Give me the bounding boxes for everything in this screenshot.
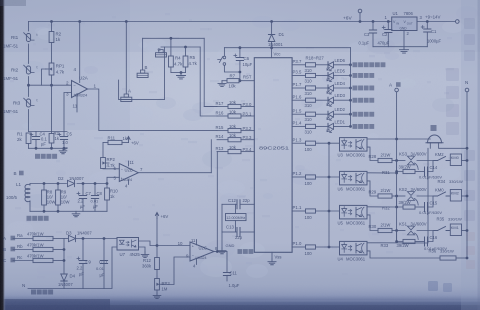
capacitor C10 0.01uF [103, 239, 105, 261]
probe C electrode [159, 50, 163, 53]
wire PSU ground bus [373, 46, 427, 48]
optocoupler U4 MOC3061 [340, 241, 368, 255]
label indicator text LED3 [353, 98, 358, 103]
wire Vcc node [224, 47, 350, 49]
resistor 100 row P1.3 [292, 142, 305, 144]
label indicator text LED5 [353, 73, 358, 78]
node R12 tap [156, 244, 159, 247]
label digital ground [238, 249, 243, 254]
optocoupler U6 MOC3061 [340, 171, 368, 185]
LED LED3 [328, 97, 334, 103]
wire R17 R16 stubs [204, 106, 217, 108]
LED LED1 [328, 123, 334, 129]
wire RP2 to pin6 [103, 168, 119, 170]
ground 4N25 [141, 252, 149, 257]
potentiometer RP2 4.7k [102, 143, 104, 158]
label over-temp sampling [35, 154, 40, 159]
wire U3 pin6 to A bus and bell [367, 138, 430, 140]
wire LED4 to bus [334, 87, 351, 89]
right-page bleed-through headline characters [446, 18, 475, 221]
capacitor C6 10uF [239, 48, 241, 58]
wire 4N25 emitter to ground [139, 247, 146, 252]
power +6V arrow [127, 137, 130, 143]
terminal input [456, 20, 460, 24]
wire probe C line to R16 row [200, 47, 217, 116]
resistor Ra 470k/1W [13, 238, 33, 240]
transformer L1 100/5 [29, 184, 31, 186]
resistor 310 row P3.7 [292, 64, 305, 66]
bottom page-edge dark band [0, 283, 480, 310]
wire regulator GND pin [403, 31, 405, 47]
capacitor C4 0.1uF [35, 132, 37, 137]
wire LED5 to bus [334, 75, 351, 77]
node phase junctions [63, 248, 66, 251]
wire bell left leg [429, 143, 431, 149]
resistor 310 row P3.5 [292, 75, 305, 77]
resistor R29 2/1W [378, 194, 392, 198]
probe B electrode [140, 70, 144, 73]
contact KM0 row2 [434, 192, 450, 196]
regulator U1 7806 [392, 17, 417, 31]
thermistor Rt2 [26, 66, 30, 74]
op-amp U2A LM324 [72, 81, 88, 98]
wire probe B line to R17 row [204, 38, 217, 106]
capacitor C11 1.0uF [226, 252, 228, 273]
resistor R15 10k to P3.2 [217, 130, 228, 132]
wire coil KM2 to N [462, 195, 468, 197]
resistor R10 1k [106, 184, 108, 189]
crystal 12.000MHz [235, 204, 237, 213]
wire probe C feed [161, 46, 200, 48]
wire U2A pin11 down [76, 94, 78, 113]
label phase-loss sampling [31, 290, 36, 295]
capacitor C2 470uF [387, 22, 389, 30]
wire opto cathode chain bus [328, 143, 330, 247]
wire U2B output to R14 [138, 172, 211, 174]
wire Vss pin [271, 252, 273, 259]
wire probe A drop from rail [125, 22, 127, 95]
thermistor Rt3 [26, 99, 30, 107]
diode D2 1N4007 [68, 180, 75, 186]
optocoupler U5 MOC3061 [340, 205, 368, 219]
coil KM1 [450, 224, 461, 236]
wire U2C output to R13 [216, 152, 218, 252]
diode D1 1N4001 [271, 22, 273, 34]
capacitor C13 22p [222, 231, 237, 233]
pushbutton reset [223, 48, 225, 56]
right page-cut edge [478, 0, 480, 310]
optocoupler U7 4N25 [117, 238, 139, 251]
node C9 C10 top junctions [82, 237, 85, 240]
node +6V rail junctions [50, 20, 53, 23]
ground R7 [218, 81, 226, 87]
wire R30 to triac KS1 [392, 230, 405, 232]
resistor R4 4.7k [170, 38, 172, 56]
wire RP1 wiper loop [42, 69, 47, 85]
node R5 top junction [184, 46, 187, 49]
wire overcurrent top bus [30, 183, 67, 185]
left book-edge black strip [0, 0, 6, 310]
capacitor C9 2.2uF [82, 239, 84, 261]
wire U2C output [214, 251, 227, 253]
contact KM1 row3 [434, 227, 450, 231]
ground PSU [400, 47, 409, 53]
ground filter [59, 148, 67, 153]
wire coil KM0 to N [462, 160, 468, 162]
resistor 100 row P1.2 [292, 176, 305, 178]
triac KS3 3A/600V [407, 156, 414, 160]
wire filter top bus [29, 131, 68, 133]
node RST junction [239, 71, 242, 74]
wire +6V top rail [29, 21, 392, 23]
wire crystal ground bus [221, 204, 223, 248]
wire U2C pin9 feedback to RP3 wiper [162, 257, 190, 285]
wire U5 pin4 down [367, 215, 378, 231]
thermistor Rt1 [26, 34, 30, 42]
coil KM0 [449, 160, 452, 162]
wire U3 pin4 down [367, 147, 378, 160]
resistor 100 row P1.1 [292, 210, 305, 212]
wire RP1 node down to R3 [51, 85, 53, 131]
capacitor C5 1.0uF [63, 132, 65, 137]
wire R28 to triac [392, 160, 405, 162]
resistor R28 2/1W [378, 158, 392, 162]
wire U4 pin6 to bell drop [367, 148, 428, 243]
resistor Rb 470k/1W [13, 249, 33, 251]
capacitor C15 0.01uF/630V [415, 206, 425, 208]
wire triac KS3 to contact [417, 160, 434, 162]
resistor Rc 470k/1W [13, 260, 33, 262]
resistor R13 10k to P3.4 [217, 151, 228, 153]
resistor R1 2k [26, 133, 31, 144]
wire LED6 to bus [334, 64, 351, 66]
wire phase join bus [63, 239, 65, 275]
capacitor C8 0.01uF [94, 184, 96, 196]
wire coil KM1 to N [462, 230, 468, 232]
node R4 top junction [170, 37, 173, 40]
wire N return [28, 247, 117, 289]
wire probe B feed [143, 37, 205, 39]
wire triac KS2 to contact [417, 195, 434, 197]
label indicator text LED4 [353, 86, 358, 91]
ground overcurrent [72, 211, 80, 216]
label indicator text LED1 [353, 124, 358, 129]
wire bell right leg to N [439, 143, 467, 149]
resistor R8 10/10W [43, 184, 45, 191]
resistor 310 row P1.4 [292, 125, 305, 127]
resistor R9 10/10W [57, 184, 59, 191]
node Vcc junctions [239, 46, 242, 49]
ground RP3 [156, 290, 158, 293]
resistor R5 4.7k [185, 47, 187, 56]
label indicator text LED2 [353, 112, 358, 117]
resistor R17 10k to P3.0 [217, 106, 228, 108]
potentiometer RP3 1M [155, 279, 160, 291]
label indicator text LED6 [353, 62, 358, 67]
snubber R31 39/2W [397, 161, 403, 172]
capacitor C3 0.1uF [372, 22, 374, 31]
node bridge junctions [27, 84, 30, 87]
wire bridge node to op-amp pin2 [29, 84, 72, 86]
right gutter shading [461, 0, 480, 310]
resistor R11 1k to +6V [103, 142, 108, 144]
capacitor C16 0.01uF/630V [415, 241, 425, 243]
triac KS2 3A/600V [407, 192, 414, 196]
resistor 310 row P1.7 [292, 87, 305, 89]
wire LED anode bus [350, 48, 352, 127]
resistor R16 10k to P3.1 [217, 115, 228, 117]
wire N bus [466, 92, 468, 258]
wire LED2 to bus [334, 113, 351, 115]
wire LED3 to bus [334, 99, 351, 101]
wire 4N25 collector out [139, 241, 158, 246]
resistor R30 2/1W [378, 228, 392, 232]
LED LED6 [328, 62, 334, 68]
wire R29 to triac KS2 [392, 195, 405, 197]
capacitor C1 1000uF [426, 22, 428, 30]
wire Vcc pin [271, 48, 273, 58]
optocoupler U3 MOC3061 [340, 138, 368, 152]
resistor R3 1k [51, 132, 53, 134]
contact KM2 [434, 157, 450, 161]
wire filter bottom bus [29, 147, 68, 149]
label overcurrent sampling [27, 216, 32, 221]
wire U6 pin4 down [367, 181, 378, 196]
node R4R5 junction [180, 71, 183, 74]
diode D4 1N4007 [61, 274, 67, 281]
wire U6 pin6 to A bus [367, 172, 397, 174]
wire triac KS1 to contact [417, 230, 434, 232]
wire U5 pin6 to A bus [367, 206, 397, 208]
ground Vss [268, 259, 276, 265]
LED LED5 [328, 73, 334, 79]
probe A electrode [124, 94, 128, 97]
wire U2A pin3 input from filter [64, 93, 72, 132]
wire U2C pin11 up [196, 240, 198, 245]
capacitor C7 2.2uF [82, 184, 84, 196]
ground digital [218, 248, 226, 254]
LED LED2 [328, 111, 334, 117]
resistor R36 330/1W [440, 256, 456, 260]
potentiometer RP1 4.7k [49, 63, 54, 75]
terminal +6V output [358, 9, 362, 13]
wire U4 pin4 down to R36 row [367, 251, 440, 258]
wire R12 node to U2C pin10 [157, 245, 190, 247]
resistor R7 10k [222, 80, 227, 82]
capacitor C14 0.01uF/630V [415, 171, 425, 173]
top-left page corner shadow [0, 0, 26, 6]
wire regulator input [417, 21, 455, 23]
wire R4 R5 common [171, 72, 186, 74]
resistor R14 10k to P3.3 [217, 139, 228, 141]
resistor 310 row P1.6 [292, 99, 305, 101]
wire A-phase bus [396, 92, 398, 242]
LED LED4 [328, 85, 334, 91]
bell symbol [428, 135, 442, 143]
resistor 100 row P1.0 [292, 246, 305, 248]
resistor R12 360k [156, 219, 158, 258]
node overcurrent junctions [43, 182, 46, 185]
wire R10 to pin5 [107, 177, 119, 183]
triac KS1 3A/600V [407, 226, 414, 230]
wire U2C pin4 down [196, 259, 198, 265]
op-amp U2C LM324 [190, 242, 214, 261]
IC U2 89C2051 [254, 58, 292, 253]
coil KM2 [450, 190, 461, 202]
wire LED1 to bus [334, 125, 351, 127]
wire tank outline [119, 47, 165, 100]
ground R4R5 [177, 73, 186, 79]
resistor 310 row P1.5 [292, 113, 305, 115]
power +6V arrow R12 [155, 213, 158, 219]
wire U2B pin11 up [128, 161, 130, 166]
resistor R2 1k [51, 22, 53, 32]
snubber R33 39/2W [397, 231, 403, 242]
capacitor C12 22p [222, 203, 237, 205]
snubber R32 39/2W [397, 196, 403, 207]
wire overcurrent bottom bus [30, 210, 107, 212]
wire U2A pin4 to rail [79, 22, 81, 83]
diode D3 1N4007 [64, 238, 68, 240]
wire U2A output to P3.2 row [88, 89, 218, 131]
op-amp U2B LM324 [119, 164, 138, 182]
wire U2B pin4 down [128, 180, 130, 185]
wire thermistor chain vertical [28, 22, 30, 32]
